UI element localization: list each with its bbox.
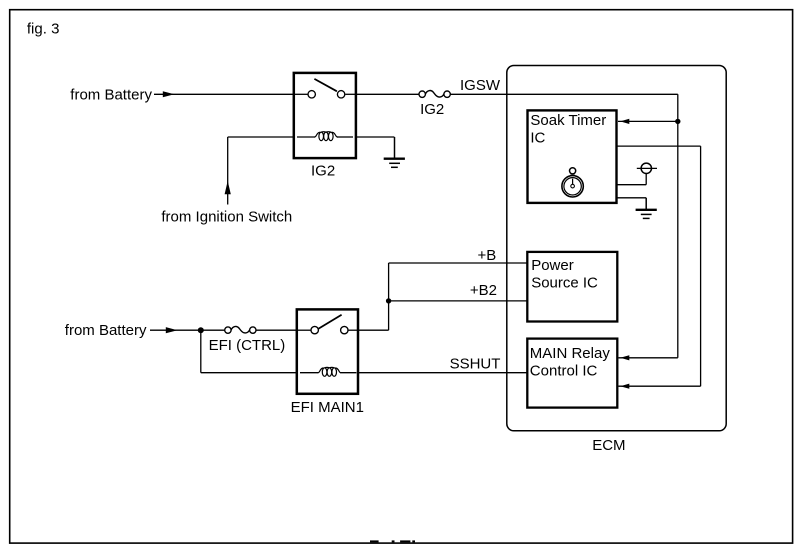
svg-text:SSHUT: SSHUT <box>450 356 501 373</box>
svg-text:EFI (CTRL): EFI (CTRL) <box>209 337 286 354</box>
svg-text:ECM: ECM <box>592 437 625 454</box>
svg-text:Control IC: Control IC <box>530 362 598 379</box>
svg-text:from Ignition Switch: from Ignition Switch <box>161 209 292 226</box>
svg-text:IG2: IG2 <box>420 101 444 118</box>
svg-text:EFI MAIN1: EFI MAIN1 <box>291 399 364 416</box>
svg-text:from Battery: from Battery <box>65 322 147 339</box>
svg-text:Source IC: Source IC <box>531 275 598 292</box>
svg-text:from Battery: from Battery <box>70 87 152 104</box>
svg-text:IG2: IG2 <box>311 162 335 179</box>
svg-text:IGSW: IGSW <box>460 77 501 94</box>
svg-text:Power: Power <box>531 257 574 274</box>
svg-text:+B: +B <box>478 247 497 264</box>
svg-text:+B2: +B2 <box>470 282 497 299</box>
svg-text:fig. 3: fig. 3 <box>27 20 60 37</box>
svg-text:MAIN Relay: MAIN Relay <box>530 345 611 362</box>
svg-text:IC: IC <box>530 130 545 147</box>
svg-text:Soak Timer: Soak Timer <box>530 112 606 129</box>
